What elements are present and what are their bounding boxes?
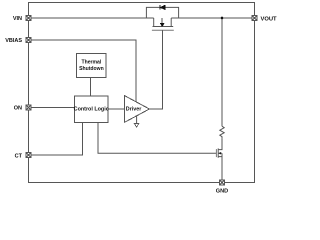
wire control logic to driver <box>108 108 125 110</box>
wire VOUT rail right <box>171 17 252 19</box>
transistor Q2 body arrow <box>219 152 222 155</box>
svg-text:Shutdown: Shutdown <box>79 66 104 72</box>
Control Logic block <box>74 96 109 122</box>
wire VOUT tap down to resistor <box>221 18 223 126</box>
transistor Q2 NMOS gate bar <box>215 149 217 157</box>
wire resistor to Q2 drain <box>218 138 222 150</box>
svg-text:ON: ON <box>14 106 22 112</box>
wire control logic to NMOS gate <box>98 122 216 153</box>
transistor Q2 NMOS source stub and lead to GND <box>218 157 222 180</box>
transistor Q2 NMOS body stub <box>218 152 222 154</box>
wire CT <box>31 122 83 155</box>
svg-text:Driver: Driver <box>126 107 142 113</box>
op-amp Driver <box>125 96 150 123</box>
transistor Q1 PMOS channel line <box>153 26 174 28</box>
driver ground arrow lead <box>136 116 138 124</box>
svg-text:Thermal: Thermal <box>81 59 101 65</box>
diode D1 symbol <box>160 5 165 10</box>
transistor Q1 PMOS drain lead <box>170 18 172 27</box>
svg-text:Control Logic: Control Logic <box>74 106 109 112</box>
svg-text:VOUT: VOUT <box>261 16 278 22</box>
junction dot at VOUT tap <box>221 17 224 20</box>
transistor Q1 PMOS gate line <box>152 29 174 31</box>
pin GND <box>220 180 225 185</box>
svg-text:CT: CT <box>15 153 23 159</box>
wire thermal shutdown to control logic <box>90 78 92 97</box>
pin ON <box>26 105 31 110</box>
IC boundary box <box>29 3 255 183</box>
transistor Q2 body-source tie <box>221 153 223 156</box>
wire VIN rail left <box>31 17 154 19</box>
svg-text:VIN: VIN <box>13 16 22 22</box>
transistor Q1 PMOS source lead <box>153 18 155 27</box>
transistor Q1 body arrow <box>160 23 164 26</box>
pin CT <box>26 153 31 158</box>
driver ground arrow head <box>134 124 138 128</box>
resistor R1 zigzag <box>220 126 224 138</box>
wire ON <box>31 107 75 109</box>
pin VBIAS <box>26 38 31 43</box>
wire VBIAS <box>31 40 136 102</box>
transistor Q1 body arrow stem <box>161 18 163 23</box>
transistor Q2 NMOS channel bar <box>217 148 219 157</box>
pin VOUT <box>252 16 257 21</box>
svg-text:GND: GND <box>216 189 228 195</box>
pin VIN <box>26 16 31 21</box>
wire gate of Q1 to driver output <box>149 30 162 109</box>
Thermal Shutdown block <box>77 54 107 78</box>
svg-text:VBIAS: VBIAS <box>5 38 22 44</box>
diode D1 loop wire <box>146 7 178 18</box>
